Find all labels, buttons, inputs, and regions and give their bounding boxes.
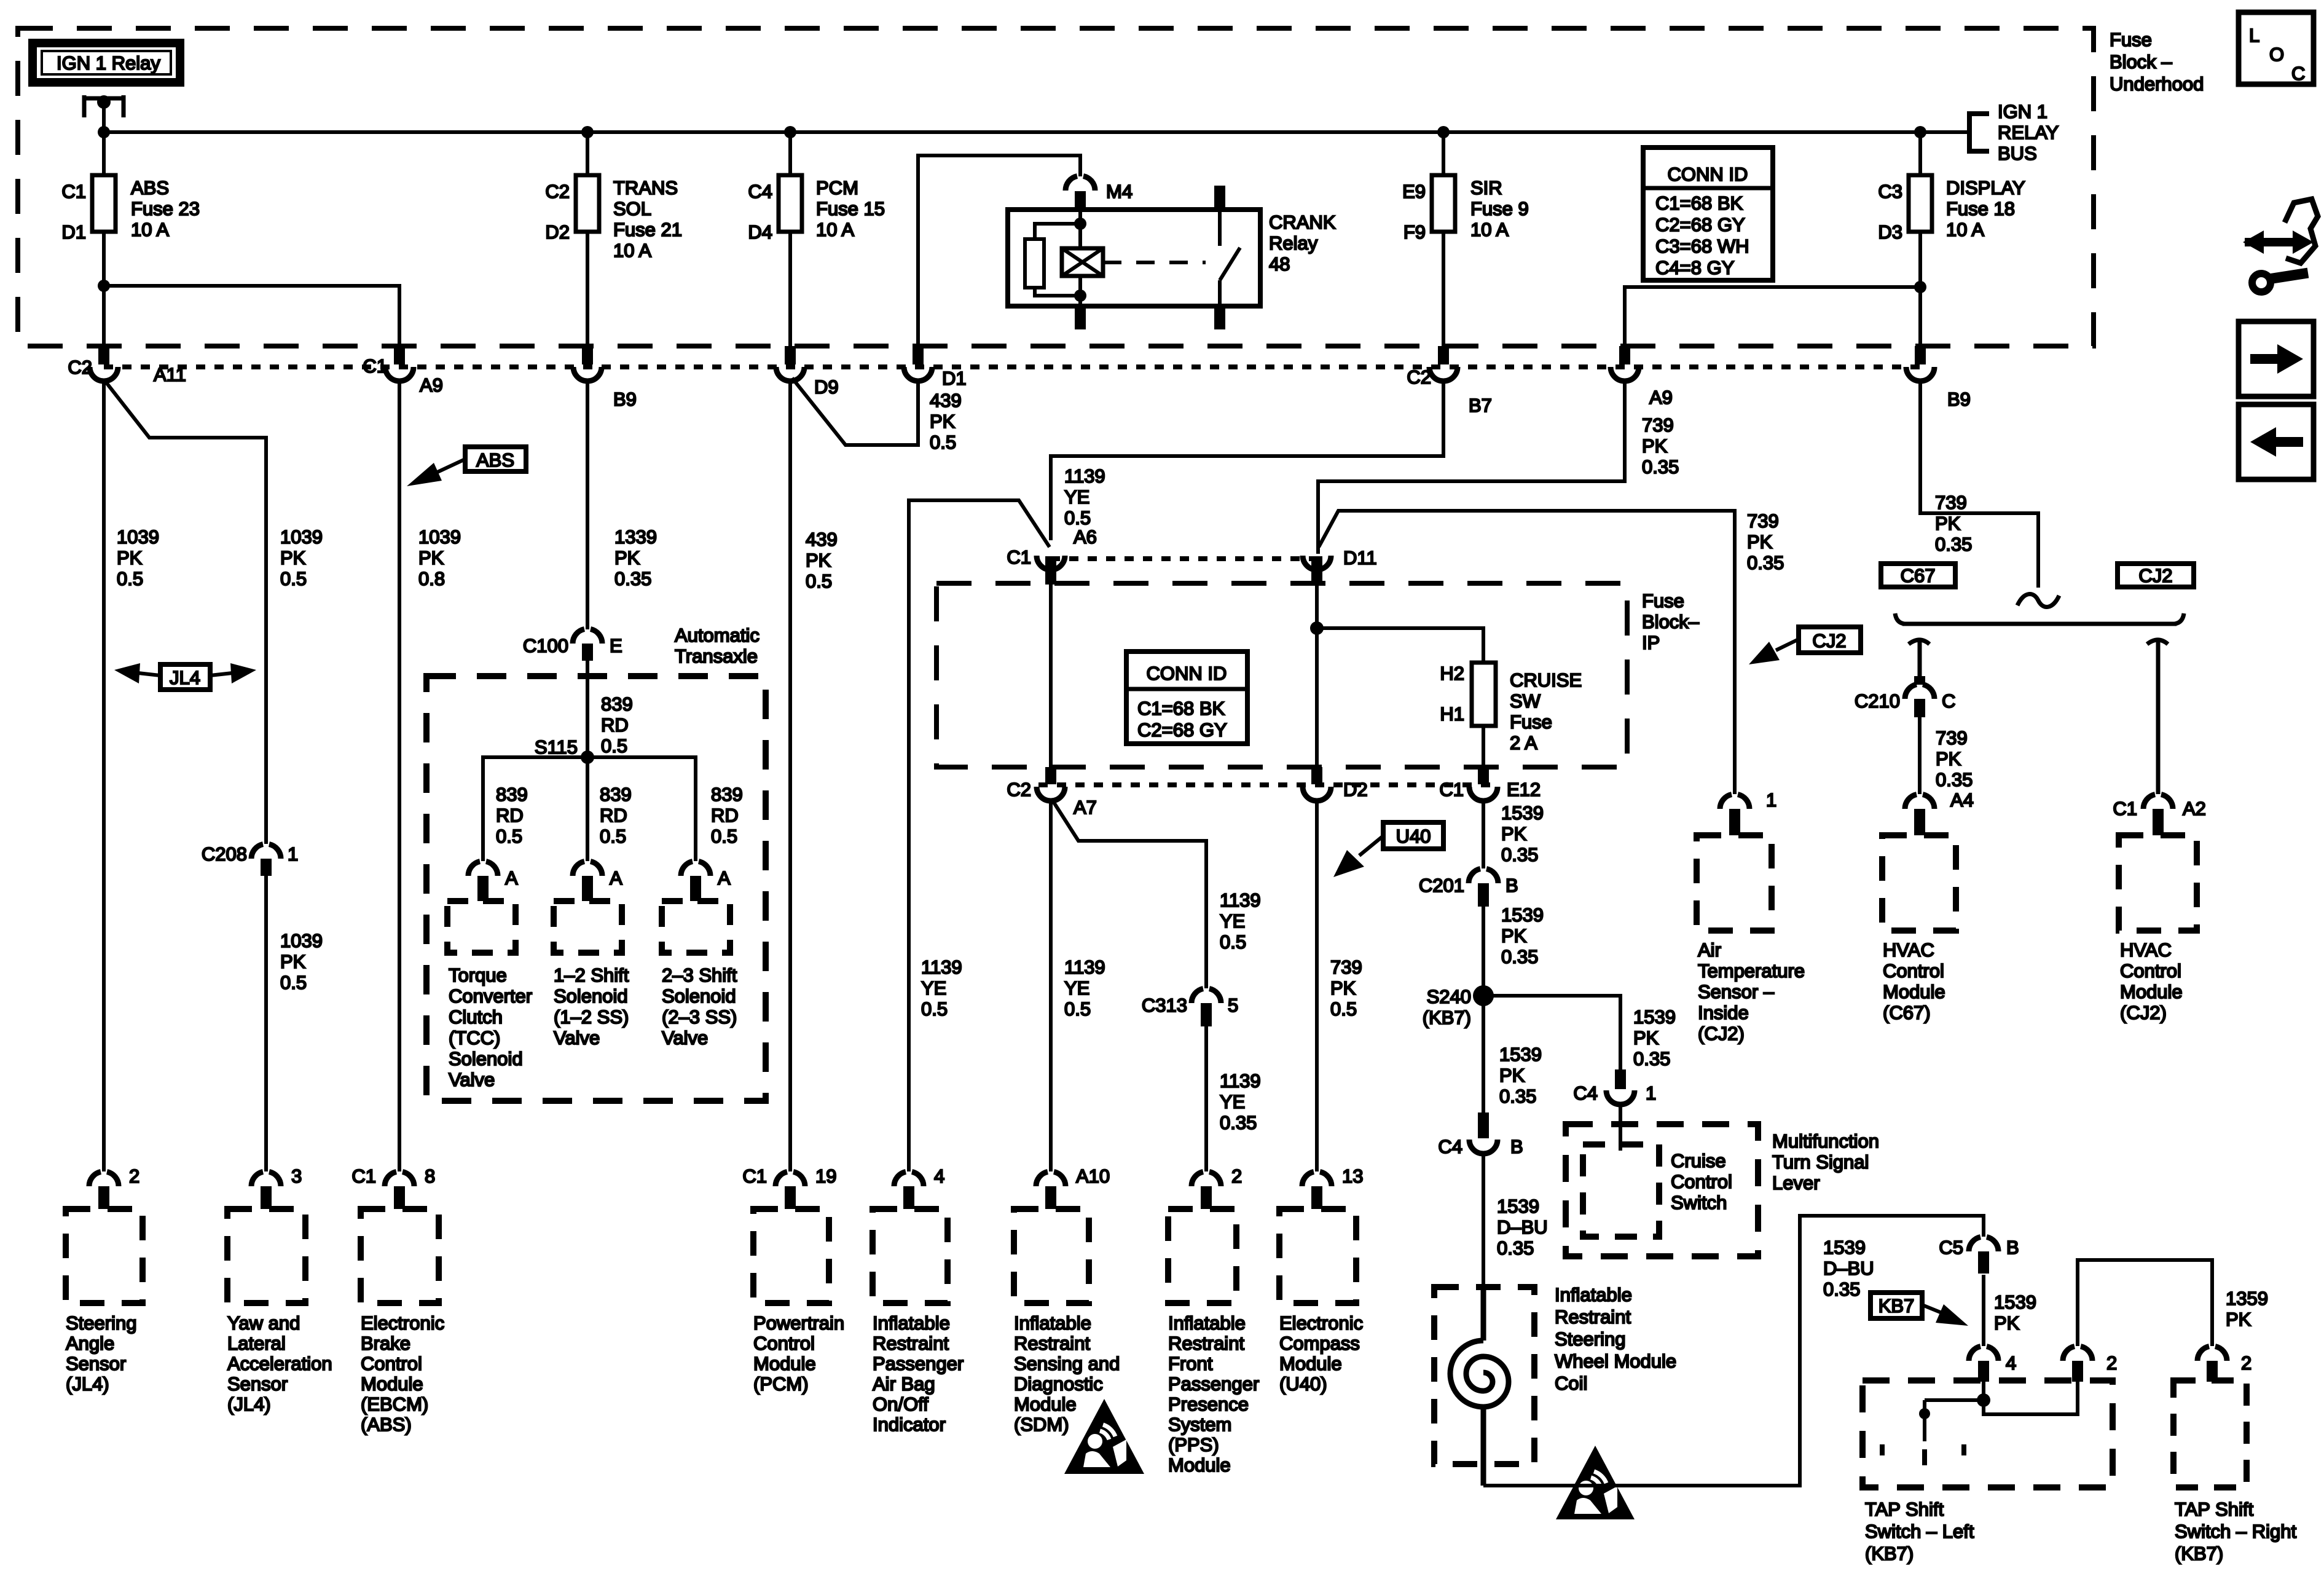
svg-text:Air: Air: [1698, 939, 1721, 961]
svg-text:(2–3 SS): (2–3 SS): [662, 1006, 737, 1028]
svg-text:2: 2: [2106, 1352, 2117, 1374]
CRANK Relay 48: [1008, 186, 1336, 329]
svg-text:H2: H2: [1440, 663, 1464, 684]
text fuse block IP: [1642, 590, 1700, 653]
svg-text:Torque: Torque: [449, 964, 507, 986]
svg-text:C2: C2: [545, 181, 570, 202]
svg-text:Coil: Coil: [1555, 1372, 1587, 1394]
inflatable restraint steering wheel module coil box: [1434, 1287, 1534, 1464]
text fuse block underhood: [2110, 29, 2204, 95]
svg-text:Sensing and: Sensing and: [1014, 1353, 1120, 1374]
svg-text:1139: 1139: [1064, 956, 1105, 978]
pps module box: [1168, 1209, 1236, 1303]
wire DISPLAY fuse to B9 connector: [1918, 232, 1922, 346]
svg-text:Module: Module: [361, 1373, 423, 1395]
connector C100 E: [523, 629, 622, 661]
svg-text:4: 4: [2006, 1352, 2016, 1374]
svg-text:0.5: 0.5: [601, 735, 627, 757]
connector A4 hvac c67: [1905, 789, 1974, 835]
svg-text:(KB7): (KB7): [1865, 1543, 1914, 1564]
label 1539 PK: [1994, 1291, 2036, 1334]
svg-text:1: 1: [288, 843, 298, 865]
svg-text:L: L: [2249, 25, 2259, 46]
svg-text:739: 739: [1642, 414, 1674, 436]
svg-text:PK: PK: [930, 411, 956, 432]
svg-text:1039: 1039: [280, 930, 323, 951]
wire branch to cruise sw fuse: [1317, 628, 1483, 663]
svg-text:Wheel Module: Wheel Module: [1555, 1350, 1676, 1372]
connector C5 B: [1939, 1237, 2019, 1274]
svg-text:IGN 1: IGN 1: [1998, 101, 2047, 122]
svg-text:F9: F9: [1403, 221, 1426, 243]
TAP shift switch left box: [1863, 1380, 2113, 1487]
KB7 label box with arrow: [1871, 1293, 1968, 1326]
wire bus to ABS fuse: [102, 132, 106, 175]
svg-text:PK: PK: [806, 549, 831, 571]
svg-text:Acceleration: Acceleration: [227, 1353, 332, 1374]
label 839 RD 0.5 tcc: [496, 784, 528, 847]
LOC reference box: [2239, 12, 2314, 84]
harness splice breakout symbol: [1895, 594, 2184, 794]
svg-text:YE: YE: [1064, 486, 1089, 508]
svg-text:RD: RD: [601, 714, 629, 736]
connector 4 air bag on off indicator: [894, 1165, 944, 1209]
wire branch D11 to air temperature sensor: [1319, 511, 1735, 794]
text electronic compass module: [1279, 1312, 1363, 1395]
connector A9 739 output: [1611, 346, 1673, 408]
U40 label box with arrow: [1333, 822, 1443, 877]
wire cruise fuse to E12: [1482, 726, 1485, 767]
svg-text:U40: U40: [1396, 825, 1431, 847]
splice S240 KB7: [1423, 985, 1494, 1028]
ABS label box with arrow: [407, 447, 526, 486]
svg-text:13: 13: [1342, 1165, 1363, 1187]
svg-text:Module: Module: [1014, 1393, 1077, 1415]
IGN 1 relay contact symbol: [84, 95, 124, 132]
label 1539 D-BU 0.35 right: [1823, 1237, 1874, 1300]
svg-text:B: B: [2006, 1237, 2019, 1258]
svg-text:PK: PK: [280, 951, 306, 972]
label 439 PK 0.5 D9 wire: [806, 529, 838, 592]
label 1539 PK 0.35 C201: [1501, 904, 1544, 967]
svg-text:PK: PK: [1994, 1312, 2020, 1334]
svg-text:Passenger: Passenger: [873, 1353, 964, 1374]
svg-text:PK: PK: [1499, 1065, 1525, 1086]
airbag warning triangle coil: [1556, 1446, 1635, 1519]
svg-text:Switch: Switch: [1671, 1192, 1727, 1213]
wire C100 to S115: [586, 661, 589, 757]
svg-text:839: 839: [600, 784, 632, 805]
svg-text:0.35: 0.35: [1936, 769, 1973, 790]
svg-text:B7: B7: [1469, 395, 1492, 416]
svg-text:Fuse 15: Fuse 15: [816, 198, 885, 219]
svg-text:SIR: SIR: [1470, 177, 1502, 199]
fuse SIR Fuse 9: [1402, 175, 1529, 243]
svg-text:1139: 1139: [1064, 465, 1105, 487]
fuse PCM Fuse 15: [748, 175, 885, 243]
connector C4 1 cruise: [1573, 1069, 1656, 1105]
svg-text:A: A: [610, 867, 622, 889]
svg-text:Restraint: Restraint: [1014, 1333, 1090, 1354]
svg-text:YE: YE: [1064, 977, 1089, 999]
svg-text:M4: M4: [1106, 181, 1133, 202]
label 739 PK 0.35 c210: [1936, 727, 1973, 790]
connector C1 A2 hvac cj2: [2113, 795, 2206, 836]
svg-text:C1: C1: [61, 181, 86, 202]
wire S240 to C4 B: [1482, 996, 1485, 1112]
svg-text:Sensor: Sensor: [227, 1373, 288, 1395]
svg-text:RELAY: RELAY: [1998, 122, 2059, 143]
text yaw and lateral acceleration sensor: [227, 1312, 332, 1415]
svg-text:PK: PK: [418, 547, 444, 569]
label 1539 D-BU 0.35: [1497, 1195, 1548, 1259]
svg-text:0.8: 0.8: [418, 568, 445, 589]
label 739 PK 0.35 display: [1935, 492, 1972, 555]
svg-text:D9: D9: [814, 376, 839, 398]
IGN 1 RELAY BUS terminal bracket: [1969, 101, 2059, 164]
svg-text:On/Off: On/Off: [873, 1393, 928, 1415]
svg-text:B: B: [1510, 1136, 1523, 1157]
svg-text:0.5: 0.5: [921, 998, 948, 1020]
torque converter clutch solenoid valve box: [447, 901, 516, 953]
svg-text:RD: RD: [600, 805, 627, 826]
svg-text:C3=68 WH: C3=68 WH: [1655, 235, 1749, 257]
svg-text:A4: A4: [1950, 789, 1974, 811]
svg-text:Sensor: Sensor: [66, 1353, 126, 1374]
wire D11 to D2 inside IP: [1315, 569, 1319, 767]
connector 4 tap left: [1969, 1347, 2016, 1382]
CJ2 label box with arrow: [1749, 627, 1861, 664]
svg-text:A7: A7: [1074, 797, 1097, 818]
svg-text:739: 739: [1935, 492, 1967, 513]
svg-text:Sensor –: Sensor –: [1698, 981, 1775, 1002]
svg-text:739: 739: [1747, 510, 1779, 532]
svg-text:839: 839: [601, 693, 633, 715]
wire C208 to yaw sensor: [264, 876, 268, 1171]
label 1539 PK 0.35 cruise branch: [1633, 1006, 1676, 1069]
svg-text:ABS: ABS: [131, 177, 169, 199]
svg-text:0.5: 0.5: [600, 825, 626, 847]
wire A7 to SDM A10: [1049, 800, 1053, 1171]
svg-text:1539: 1539: [1823, 1237, 1866, 1258]
svg-text:0.5: 0.5: [1220, 931, 1246, 953]
svg-text:C1: C1: [1439, 779, 1464, 800]
svg-text:739: 739: [1330, 956, 1362, 978]
svg-text:TAP Shift: TAP Shift: [2175, 1498, 2253, 1520]
svg-text:Converter: Converter: [449, 985, 532, 1007]
svg-text:C67: C67: [1901, 565, 1936, 586]
wire ABS branch to EBCM output A9: [104, 286, 399, 346]
svg-text:Angle: Angle: [66, 1333, 114, 1354]
svg-text:C1: C1: [2113, 798, 2137, 819]
svg-text:IGN 1 Relay: IGN 1 Relay: [57, 52, 160, 74]
svg-text:Inflatable: Inflatable: [873, 1312, 950, 1334]
svg-text:(EBCM): (EBCM): [361, 1393, 428, 1415]
TAP left internal wiring: [1882, 1382, 2078, 1475]
fuse block underhood dashed border: [18, 28, 2094, 346]
text cruise control switch: [1671, 1150, 1732, 1213]
svg-text:C313: C313: [1142, 994, 1187, 1016]
svg-text:Steering: Steering: [1555, 1328, 1625, 1350]
svg-text:0.5: 0.5: [280, 972, 307, 993]
connector C1 A6: [1007, 526, 1097, 585]
svg-text:1: 1: [1766, 789, 1776, 811]
IGN 1 relay bus wire: [104, 130, 1969, 134]
svg-text:Inflatable: Inflatable: [1014, 1312, 1091, 1334]
svg-text:0.35: 0.35: [1497, 1237, 1534, 1259]
connector row dotted IP bottom: [1038, 782, 1496, 787]
text pcm: [753, 1312, 844, 1395]
svg-text:C4: C4: [1573, 1082, 1598, 1104]
svg-text:CJ2: CJ2: [1812, 630, 1846, 652]
svg-text:DISPLAY: DISPLAY: [1946, 177, 2025, 199]
svg-text:Powertrain: Powertrain: [753, 1312, 844, 1334]
label 1339 PK 0.35: [614, 526, 657, 589]
svg-text:Turn Signal: Turn Signal: [1772, 1151, 1869, 1173]
svg-text:H1: H1: [1440, 703, 1464, 725]
connector A tcc solenoid: [468, 862, 518, 902]
bus junction dot at ABS fuse: [98, 126, 110, 138]
text tap shift switch left: [1865, 1498, 1974, 1564]
connector C208 1: [202, 843, 298, 876]
svg-text:Fuse: Fuse: [1642, 590, 1684, 612]
wire D9 to PCM: [788, 380, 792, 1171]
svg-text:Transaxle: Transaxle: [675, 645, 758, 667]
svg-text:Fuse: Fuse: [1510, 711, 1552, 733]
wire A6 to A7 inside IP: [1049, 569, 1053, 767]
svg-text:10 A: 10 A: [131, 219, 169, 240]
svg-text:D11: D11: [1343, 547, 1377, 569]
svg-text:Control: Control: [2120, 960, 2181, 982]
label 1139 YE 0.5 above C313: [1220, 889, 1261, 953]
svg-text:Underhood: Underhood: [2110, 73, 2204, 95]
svg-text:0.5: 0.5: [1064, 507, 1091, 529]
wire C4 1 into cruise control switch: [1619, 1105, 1622, 1151]
svg-text:A2: A2: [2183, 798, 2206, 819]
connector 3 yaw and lateral acceleration sensor: [251, 1165, 302, 1209]
svg-text:839: 839: [711, 784, 743, 805]
svg-text:S115: S115: [535, 736, 578, 758]
svg-text:(CJ2): (CJ2): [2120, 1002, 2167, 1023]
wire bus to PCM fuse: [788, 132, 792, 175]
svg-text:C2: C2: [1007, 779, 1031, 800]
wire coil to C5 B: [1483, 1216, 1984, 1486]
label 739 PK 0.5 compass wire: [1330, 956, 1362, 1020]
TAP shift switch right box: [2173, 1380, 2247, 1487]
svg-text:Solenoid: Solenoid: [449, 1048, 523, 1069]
svg-text:E: E: [610, 635, 622, 656]
svg-text:Inside: Inside: [1698, 1002, 1749, 1023]
svg-text:Inflatable: Inflatable: [1168, 1312, 1246, 1334]
svg-text:1339: 1339: [614, 526, 657, 548]
wire B7 to A6: [1051, 380, 1443, 540]
fuse TRANS SOL Fuse 21: [545, 175, 682, 261]
svg-text:IP: IP: [1642, 632, 1660, 653]
connector row dotted line underhood: [104, 364, 1920, 369]
connector C1 A9 ebcm feed: [363, 346, 443, 396]
connector 2 tap left: [2063, 1347, 2117, 1382]
svg-text:PK: PK: [280, 547, 306, 569]
svg-text:Lever: Lever: [1772, 1172, 1820, 1194]
connector A 1-2 solenoid: [573, 862, 622, 902]
electronic compass module box: [1279, 1209, 1356, 1303]
JL4 label box with arrows: [114, 663, 256, 690]
label 1139 YE 0.5 at A6: [1064, 465, 1105, 529]
svg-text:CRANK: CRANK: [1269, 211, 1336, 233]
svg-text:D3: D3: [1878, 221, 1902, 243]
svg-text:PK: PK: [1936, 748, 1961, 770]
svg-text:C1: C1: [742, 1165, 767, 1187]
text 2-3 shift solenoid valve: [662, 964, 737, 1049]
wire A11 branch to C208: [105, 381, 266, 844]
connector 2 pps module: [1191, 1165, 1242, 1209]
svg-text:Temperature: Temperature: [1698, 960, 1805, 982]
svg-text:Restraint: Restraint: [1555, 1306, 1631, 1328]
svg-text:A: A: [505, 867, 518, 889]
svg-text:0.35: 0.35: [1823, 1278, 1860, 1300]
wire A9 to EBCM: [398, 380, 401, 1171]
svg-text:B9: B9: [1947, 388, 1971, 410]
backward reference arrow box: [2239, 404, 2314, 479]
svg-text:0.35: 0.35: [1935, 534, 1972, 555]
junction dot ABS branch to EBCM feed: [98, 280, 110, 292]
CJ2 label box right: [2118, 564, 2194, 587]
wire TRANS SOL fuse to B9 connector: [586, 232, 589, 346]
svg-text:Restraint: Restraint: [873, 1333, 949, 1354]
svg-text:PK: PK: [1935, 513, 1961, 534]
svg-text:RD: RD: [496, 805, 524, 826]
svg-text:Switch – Left: Switch – Left: [1865, 1521, 1974, 1542]
svg-text:Yaw and: Yaw and: [227, 1312, 300, 1334]
svg-text:C1=68 BK: C1=68 BK: [1137, 698, 1225, 719]
fuse CRUISE SW Fuse 2 A: [1440, 663, 1582, 754]
svg-text:(KB7): (KB7): [2175, 1543, 2223, 1564]
wire C201 to S240: [1482, 907, 1485, 996]
svg-text:0.5: 0.5: [711, 825, 737, 847]
svg-text:(PCM): (PCM): [753, 1373, 809, 1395]
svg-text:2 A: 2 A: [1510, 732, 1537, 754]
svg-text:1539: 1539: [1633, 1006, 1676, 1028]
svg-text:439: 439: [930, 390, 962, 411]
svg-text:Electronic: Electronic: [1279, 1312, 1363, 1334]
hvac control module c67 box: [1882, 835, 1956, 931]
connector M4: [1066, 176, 1133, 210]
svg-text:0.35: 0.35: [1499, 1085, 1536, 1107]
svg-text:D–BU: D–BU: [1497, 1216, 1548, 1238]
text sdm: [1014, 1312, 1120, 1435]
svg-text:0.5: 0.5: [280, 568, 307, 589]
svg-text:D1: D1: [942, 368, 967, 389]
cruise control switch box: [1583, 1144, 1659, 1237]
svg-text:48: 48: [1269, 253, 1290, 275]
svg-text:Valve: Valve: [662, 1027, 708, 1049]
connector B9 trans sol: [573, 346, 637, 410]
svg-text:PK: PK: [2226, 1309, 2251, 1330]
connector C1 E12: [1439, 767, 1541, 801]
wire C210 to A4: [1918, 717, 1922, 794]
svg-text:Multifunction: Multifunction: [1772, 1130, 1879, 1152]
svg-text:Control: Control: [1883, 960, 1944, 982]
svg-text:Valve: Valve: [449, 1069, 495, 1090]
svg-text:C: C: [2291, 63, 2305, 84]
svg-text:Control: Control: [753, 1333, 815, 1354]
svg-text:C1: C1: [351, 1165, 376, 1187]
label 1039 PK 0.5 C208 wire: [280, 526, 323, 589]
connector D1 crank 439: [904, 346, 967, 389]
svg-text:Module: Module: [1883, 981, 1945, 1002]
yaw and lateral acceleration sensor box: [227, 1209, 305, 1303]
connector D2: [1303, 767, 1368, 801]
svg-text:D4: D4: [748, 221, 772, 243]
air temperature sensor box: [1697, 835, 1772, 931]
svg-text:Diagnostic: Diagnostic: [1014, 1373, 1103, 1395]
svg-text:CJ2: CJ2: [2138, 565, 2172, 586]
text air bag on off indicator: [873, 1312, 964, 1435]
svg-text:YE: YE: [1220, 910, 1245, 932]
svg-text:C2: C2: [68, 356, 92, 378]
svg-text:O: O: [2269, 44, 2284, 65]
svg-text:0.35: 0.35: [1747, 552, 1784, 573]
svg-text:Solenoid: Solenoid: [662, 985, 736, 1007]
svg-text:D2: D2: [1343, 779, 1368, 800]
forward reference arrow box: [2239, 321, 2314, 396]
svg-text:C: C: [1942, 690, 1955, 712]
svg-text:Steering: Steering: [66, 1312, 136, 1334]
svg-text:(U40): (U40): [1279, 1373, 1327, 1395]
svg-text:E12: E12: [1507, 779, 1541, 800]
svg-text:C1: C1: [363, 355, 387, 377]
label 1039 PK 0.5 A11 wire: [117, 526, 159, 589]
svg-text:Block –: Block –: [2110, 51, 2172, 73]
svg-text:A11: A11: [154, 364, 186, 385]
wire node D1 and M4 crank relay feed: [918, 156, 1080, 346]
svg-text:Inflatable: Inflatable: [1555, 1284, 1632, 1305]
svg-text:739: 739: [1936, 727, 1968, 749]
svg-text:(ABS): (ABS): [361, 1414, 412, 1435]
text automatic transaxle: [675, 624, 760, 667]
svg-text:PK: PK: [1501, 925, 1527, 947]
svg-text:Fuse 18: Fuse 18: [1946, 198, 2015, 219]
label 1139 YE 0.5 SDM wire: [1064, 956, 1105, 1020]
connector C2 A11: [68, 346, 186, 385]
svg-text:0.35: 0.35: [1501, 946, 1538, 967]
svg-text:(TCC): (TCC): [449, 1027, 500, 1049]
svg-text:C2=68 GY: C2=68 GY: [1137, 719, 1227, 741]
svg-text:PK: PK: [1642, 435, 1668, 457]
svg-text:1139: 1139: [1220, 889, 1261, 911]
svg-text:1539: 1539: [1501, 802, 1544, 824]
svg-text:C1=68 BK: C1=68 BK: [1655, 192, 1743, 214]
ebcm box: [361, 1209, 439, 1303]
svg-text:Indicator: Indicator: [873, 1414, 946, 1435]
wire bus to DISPLAY fuse: [1918, 132, 1922, 175]
svg-text:(KB7): (KB7): [1423, 1007, 1471, 1028]
svg-text:D–BU: D–BU: [1823, 1258, 1874, 1279]
svg-text:Electronic: Electronic: [361, 1312, 444, 1334]
svg-text:1039: 1039: [418, 526, 461, 548]
connector 2 tap right: [2197, 1347, 2251, 1382]
wire D1 439 merge into D9: [792, 378, 918, 445]
svg-text:C2=68 GY: C2=68 GY: [1655, 214, 1745, 235]
wire C4 B to coil: [1482, 1154, 1485, 1287]
svg-text:Relay: Relay: [1269, 232, 1318, 254]
svg-text:YE: YE: [1220, 1091, 1245, 1112]
svg-text:1: 1: [1646, 1082, 1656, 1104]
svg-text:0.35: 0.35: [1501, 844, 1538, 865]
IGN 1 Relay box: [33, 43, 180, 82]
svg-text:A6: A6: [1074, 526, 1097, 548]
svg-text:Cruise: Cruise: [1671, 1150, 1726, 1171]
